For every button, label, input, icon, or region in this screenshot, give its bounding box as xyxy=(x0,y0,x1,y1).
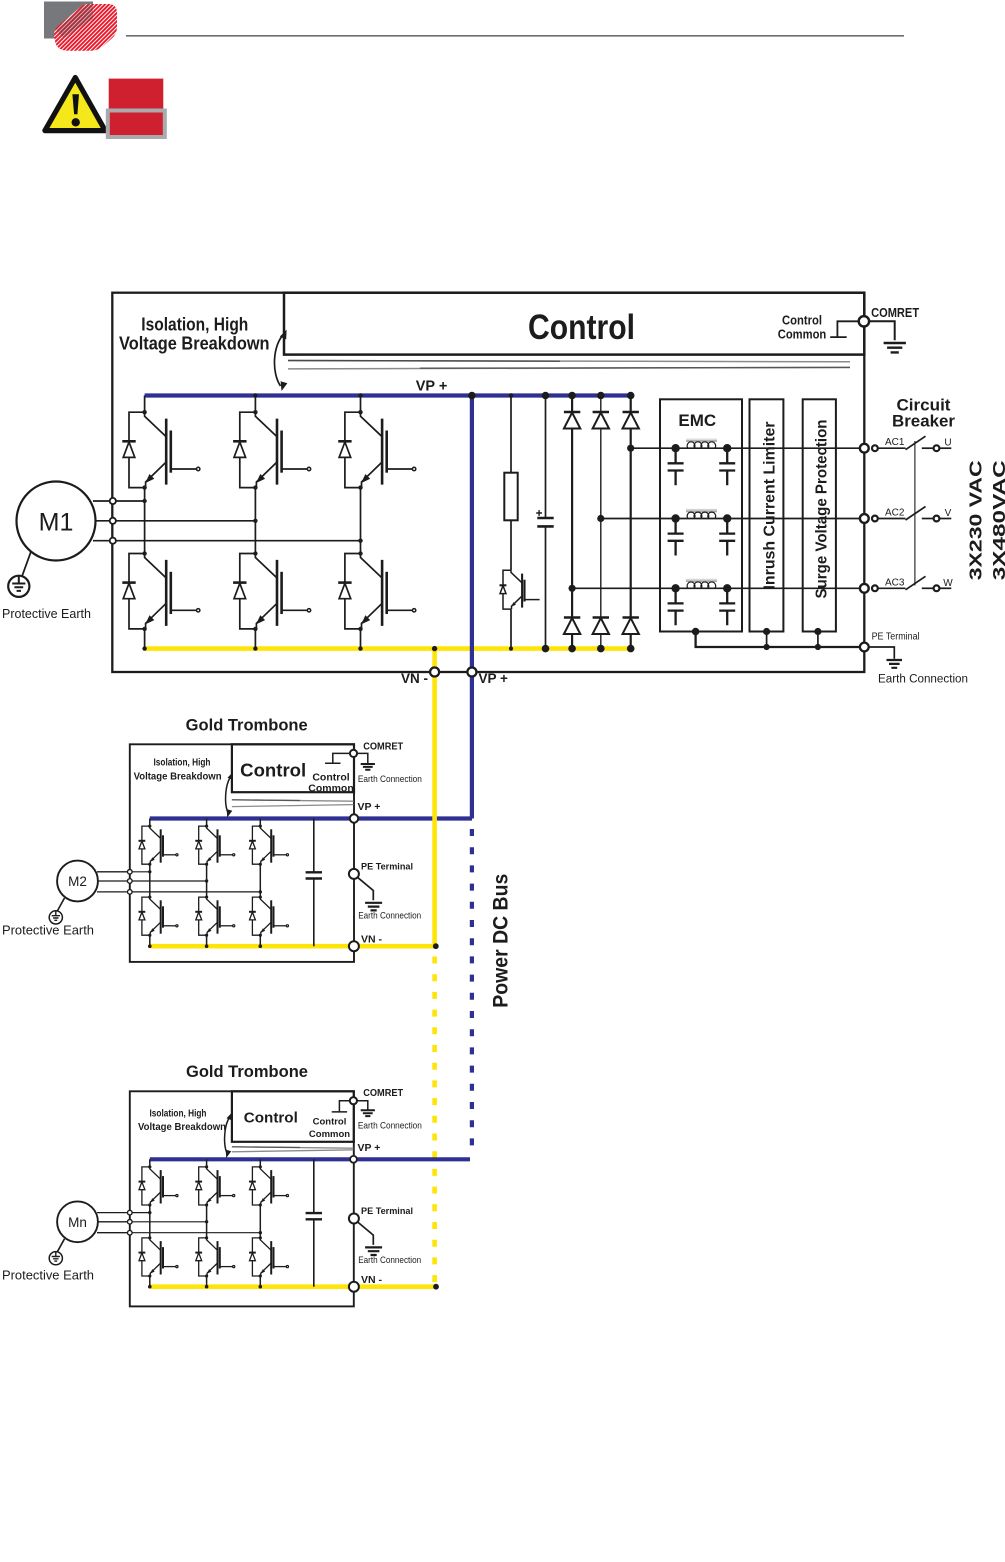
terminal AC2 xyxy=(860,514,869,523)
wire phase leg 3 (GT2) xyxy=(259,819,261,947)
svg-text:W: W xyxy=(943,578,953,589)
transistor GT2-Q4 (IGBT with anti-parallel diode) xyxy=(139,896,178,937)
logo gray parallelogram xyxy=(44,2,93,39)
wire phase leg 3 (GT3) xyxy=(259,1159,261,1286)
wire unit3 VP+ rail (navy) xyxy=(150,1157,470,1161)
svg-text:V: V xyxy=(945,508,952,519)
inductor L3 (EMC) xyxy=(686,579,717,588)
node phase 1 junction xyxy=(142,499,146,503)
terminal COMRET (GT2) xyxy=(350,750,357,757)
capacitor C-EMC-3a xyxy=(668,588,684,625)
svg-text:Common: Common xyxy=(309,1129,350,1140)
transistor GT3-Q6 (IGBT with anti-parallel diode) xyxy=(249,1236,289,1277)
svg-text:Earth Connection: Earth Connection xyxy=(358,910,421,921)
control common stub symbol xyxy=(332,1101,351,1112)
svg-text:COMRET: COMRET xyxy=(363,742,403,753)
logo overlap shading xyxy=(56,5,93,39)
wires M2 to terminals xyxy=(97,872,128,892)
svg-text:Control: Control xyxy=(313,1116,347,1127)
Control block (GT2) xyxy=(232,744,354,792)
svg-text:Gold Trombone: Gold Trombone xyxy=(186,1063,308,1081)
wire motor phase 2 (GT3) xyxy=(130,1221,207,1223)
terminal VN- (GT3) xyxy=(349,1282,359,1292)
terminal VP+ (GT3) xyxy=(350,1156,357,1163)
switch pole AC3 xyxy=(878,587,906,589)
svg-text:VP +: VP + xyxy=(416,379,448,395)
svg-text:Voltage Breakdown: Voltage Breakdown xyxy=(119,333,270,353)
transistor GT2-Q3 (IGBT with anti-parallel diode) xyxy=(249,825,289,866)
wire Power DC Bus VN- (yellow dashed) xyxy=(432,957,437,1284)
svg-text:AC2: AC2 xyxy=(885,508,905,519)
svg-text:Gold Trombone: Gold Trombone xyxy=(186,717,308,735)
wire phase leg 1 (GT3) xyxy=(149,1159,151,1286)
wire motor phase 1 xyxy=(111,500,145,502)
terminal VN- (main, re-stamped) xyxy=(430,668,439,677)
wire Power DC Bus VP+ (navy dashed) xyxy=(470,829,474,1156)
isolation barrier lines xyxy=(232,1147,353,1148)
transistor Q6 (IGBT with anti-parallel diode) xyxy=(338,551,416,631)
terminal PE (main) xyxy=(860,643,869,652)
main outer enclosure box xyxy=(112,293,864,672)
svg-text:Control: Control xyxy=(244,1110,298,1126)
redacted heading block 1 xyxy=(109,79,164,109)
Surge Voltage Protection block xyxy=(803,399,836,631)
svg-text:Inrush Current Limiter: Inrush Current Limiter xyxy=(761,422,778,590)
svg-text:Isolation, High: Isolation, High xyxy=(141,315,248,335)
node DC bus VN- end junction xyxy=(433,1284,439,1290)
motor M1 xyxy=(17,482,96,561)
wire phase leg 2 verticals xyxy=(254,396,256,649)
isolation double-headed arrow xyxy=(225,1116,231,1154)
inductor L2 (EMC) xyxy=(686,510,717,519)
svg-text:Isolation, High: Isolation, High xyxy=(150,1108,207,1120)
junction dots on VN- bus xyxy=(142,646,146,650)
svg-text:Breaker: Breaker xyxy=(892,413,956,431)
control common stub symbol xyxy=(325,753,350,763)
transistor Q5 (IGBT with anti-parallel diode) xyxy=(233,551,311,631)
wire M2 to protective earth xyxy=(57,898,64,911)
capacitor C-EMC-1b xyxy=(719,448,735,485)
svg-text:Earth Connection: Earth Connection xyxy=(358,1255,421,1266)
svg-text:M1: M1 xyxy=(39,509,74,537)
earth symbol at COMRET xyxy=(357,1101,368,1110)
svg-text:U: U xyxy=(944,438,951,449)
wire phase leg 1 verticals xyxy=(144,396,146,649)
diode D6 xyxy=(623,618,639,635)
wire motor phase 3 (GT2) xyxy=(130,891,260,893)
junction dots on VP+ bus xyxy=(253,393,257,397)
wire motor phase 3 (GT3) xyxy=(130,1232,260,1234)
svg-text:Surge Voltage Protection: Surge Voltage Protection xyxy=(814,420,831,599)
node AC taps on rectifier legs xyxy=(627,445,634,452)
svg-text:Earth Connection: Earth Connection xyxy=(878,674,968,686)
transistor GT3-Q4 (IGBT with anti-parallel diode) xyxy=(139,1236,178,1277)
wire unit2 VN- rail (yellow) xyxy=(150,944,436,949)
svg-text:PE Terminal: PE Terminal xyxy=(361,861,413,872)
wires Mn to terminals xyxy=(97,1213,128,1233)
svg-text:EMC: EMC xyxy=(678,411,716,430)
terminal COMRET (GT3) xyxy=(350,1097,357,1104)
capacitor C-EMC-2b xyxy=(719,519,735,556)
wire VP+ drop to DC bus terminal (navy) xyxy=(470,393,474,672)
wires M1 to terminals xyxy=(93,501,111,541)
earth connection (PE) xyxy=(358,1222,374,1245)
transistor GT2-Q6 (IGBT with anti-parallel diode) xyxy=(249,896,289,937)
wire VN- drop to terminal (yellow) xyxy=(432,649,437,671)
transistor GT3-Q3 (IGBT with anti-parallel diode) xyxy=(249,1165,289,1206)
capacitor C (GT2 DC link) xyxy=(313,819,315,947)
svg-text:Earth Connection: Earth Connection xyxy=(358,774,422,785)
transistor GT3-Q5 (IGBT with anti-parallel diode) xyxy=(195,1236,234,1277)
diode D3 xyxy=(623,412,639,429)
svg-text:3X230 VAC: 3X230 VAC xyxy=(965,460,985,580)
svg-text:Isolation, High: Isolation, High xyxy=(154,757,211,769)
terminal COMRET (main) xyxy=(859,316,869,326)
earth symbol at COMRET xyxy=(357,753,368,763)
svg-text:COMRET: COMRET xyxy=(871,305,919,320)
transistor Q3 (IGBT with anti-parallel diode) xyxy=(338,410,416,490)
svg-text:COMRET: COMRET xyxy=(363,1088,403,1099)
control common stub symbol xyxy=(830,321,858,337)
GT3 enclosure box xyxy=(130,1091,354,1306)
wire AC line 1 xyxy=(631,447,860,449)
svg-text:Voltage Breakdown: Voltage Breakdown xyxy=(134,770,222,782)
wire Mn to protective earth xyxy=(57,1239,64,1252)
wire brake leg xyxy=(510,396,512,649)
svg-text:VP +: VP + xyxy=(358,801,381,813)
svg-text:Protective Earth: Protective Earth xyxy=(2,1269,94,1283)
header rule xyxy=(126,35,904,37)
Control block xyxy=(284,293,864,355)
terminal VP+ (main, DC bus) xyxy=(467,668,476,677)
isolation barrier lines xyxy=(288,361,850,362)
svg-text:VN -: VN - xyxy=(361,934,383,946)
wire motor phase 2 xyxy=(111,520,255,522)
svg-text:Mn: Mn xyxy=(68,1215,87,1230)
svg-text:VN -: VN - xyxy=(401,671,428,686)
warning triangle icon xyxy=(45,78,105,131)
GT2 enclosure box xyxy=(130,744,354,962)
logo red striped swoosh xyxy=(54,4,117,51)
terminal VP+ (main, re-stamped) xyxy=(467,668,476,677)
svg-text:Protective Earth: Protective Earth xyxy=(2,924,94,938)
wire VP+ bus (navy) xyxy=(145,393,631,397)
wire M1 to protective earth xyxy=(22,552,31,576)
capacitor C1 (DC link) xyxy=(536,510,554,526)
earth connection (PE) xyxy=(358,877,374,900)
transistor GT2-Q5 (IGBT with anti-parallel diode) xyxy=(195,896,234,937)
breaker linkage xyxy=(914,441,916,586)
EMC filter block xyxy=(660,399,742,631)
node phase 3 junction xyxy=(358,539,362,543)
wire unit2 VP+ rail (navy) xyxy=(150,816,472,820)
svg-text:PE Terminal: PE Terminal xyxy=(872,632,920,643)
transistor GT3-Q1 (IGBT with anti-parallel diode) xyxy=(139,1165,178,1206)
isolation barrier lines xyxy=(232,800,354,801)
svg-text:M2: M2 xyxy=(68,874,87,889)
wire AC line 3 xyxy=(572,587,860,589)
wire unit3 VN- rail (yellow) xyxy=(150,1284,436,1289)
wire PE bus xyxy=(696,632,860,648)
capacitor C (GT3 DC link) xyxy=(313,1159,315,1286)
transistor Q1 (IGBT with anti-parallel diode) xyxy=(122,410,200,490)
terminal VP+ (GT2) xyxy=(350,814,358,822)
wire DC bus VP+ link (navy solid) xyxy=(470,670,474,819)
Control block (GT3) xyxy=(232,1091,354,1142)
node phase 2 junction xyxy=(253,519,257,523)
svg-text:Power DC Bus: Power DC Bus xyxy=(488,874,512,1008)
diode D4 xyxy=(564,618,580,635)
terminals motor phases on enclosure edge xyxy=(110,498,116,504)
capacitor C-EMC-2a xyxy=(668,519,684,556)
Inrush Current Limiter block xyxy=(750,399,784,631)
isolation double-headed arrow xyxy=(226,776,232,814)
terminal AC3 xyxy=(860,584,869,593)
svg-text:Control: Control xyxy=(528,308,635,347)
transistor Q7 (brake) (IGBT with anti-parallel diode) xyxy=(500,570,540,609)
diode D1 xyxy=(564,412,580,429)
wire phase leg 3 verticals xyxy=(360,396,362,649)
resistor R-brake xyxy=(504,473,517,521)
svg-text:Control: Control xyxy=(782,313,822,328)
switch pole AC2 xyxy=(878,518,906,520)
wire motor phase 1 (GT3) xyxy=(130,1212,150,1214)
transistor GT2-Q1 (IGBT with anti-parallel diode) xyxy=(139,825,178,866)
svg-text:Control: Control xyxy=(240,761,306,781)
capacitor C-EMC-3b xyxy=(719,588,735,625)
wire capacitor leg xyxy=(545,396,547,649)
wire motor phase 3 xyxy=(111,540,361,542)
motor Mn xyxy=(57,1201,98,1242)
svg-text:Common: Common xyxy=(308,783,354,795)
wire motor phase 2 (GT2) xyxy=(130,880,207,882)
earth connection (main PE) xyxy=(869,647,895,659)
protective earth symbol (M2) xyxy=(49,911,62,924)
transistor GT2-Q2 (IGBT with anti-parallel diode) xyxy=(195,825,234,866)
terminal VN- (main) xyxy=(430,668,439,677)
transistor Q2 (IGBT with anti-parallel diode) xyxy=(233,410,311,490)
svg-text:VP +: VP + xyxy=(479,671,509,686)
wire motor phase 1 (GT2) xyxy=(130,871,150,873)
svg-text:VP +: VP + xyxy=(358,1142,381,1154)
svg-text:Protective Earth: Protective Earth xyxy=(2,607,91,621)
terminal VN- (GT2) xyxy=(349,941,359,951)
redacted heading block 2 xyxy=(108,111,165,138)
svg-text:PE Terminal: PE Terminal xyxy=(361,1206,413,1217)
svg-text:Voltage Breakdown: Voltage Breakdown xyxy=(138,1121,226,1133)
protective earth symbol (Mn) xyxy=(49,1252,62,1265)
junction dots on buses xyxy=(148,1285,152,1289)
wire phase leg 1 (GT2) xyxy=(149,819,151,947)
svg-text:Common: Common xyxy=(778,327,827,342)
wire phase leg 2 (GT2) xyxy=(206,819,208,947)
wire phase leg 2 (GT3) xyxy=(206,1159,208,1286)
junction dots on buses xyxy=(148,944,152,948)
switch pole AC1 xyxy=(878,447,906,449)
transistor GT3-Q2 (IGBT with anti-parallel diode) xyxy=(195,1165,234,1206)
inductor L1 (EMC) xyxy=(686,439,717,448)
motor M2 xyxy=(57,861,98,902)
terminal AC1 xyxy=(860,444,869,453)
wire rectifier leg 3 xyxy=(630,396,632,649)
diode D5 xyxy=(593,618,609,635)
node DC bus VN- junction xyxy=(433,943,439,949)
wire rectifier leg 2 xyxy=(600,396,602,649)
svg-text:Earth Connection: Earth Connection xyxy=(358,1121,422,1132)
transistor Q4 (IGBT with anti-parallel diode) xyxy=(122,551,200,631)
wire VN- bus (yellow) xyxy=(145,646,631,651)
svg-text:3X480VAC: 3X480VAC xyxy=(989,460,1005,580)
wire AC line 2 xyxy=(601,518,860,520)
isolation double-headed arrow xyxy=(274,334,284,386)
svg-text:AC1: AC1 xyxy=(885,437,905,448)
svg-text:AC3: AC3 xyxy=(885,577,905,588)
svg-text:VN -: VN - xyxy=(361,1274,383,1286)
diode D2 xyxy=(593,412,609,429)
capacitor C-EMC-1a xyxy=(668,448,684,485)
earth symbol at COMRET (main) xyxy=(869,321,895,340)
protective earth symbol (M1) xyxy=(8,576,29,597)
wire DC bus VN- link (yellow solid) xyxy=(432,671,437,946)
wire rectifier leg 1 xyxy=(571,396,573,649)
